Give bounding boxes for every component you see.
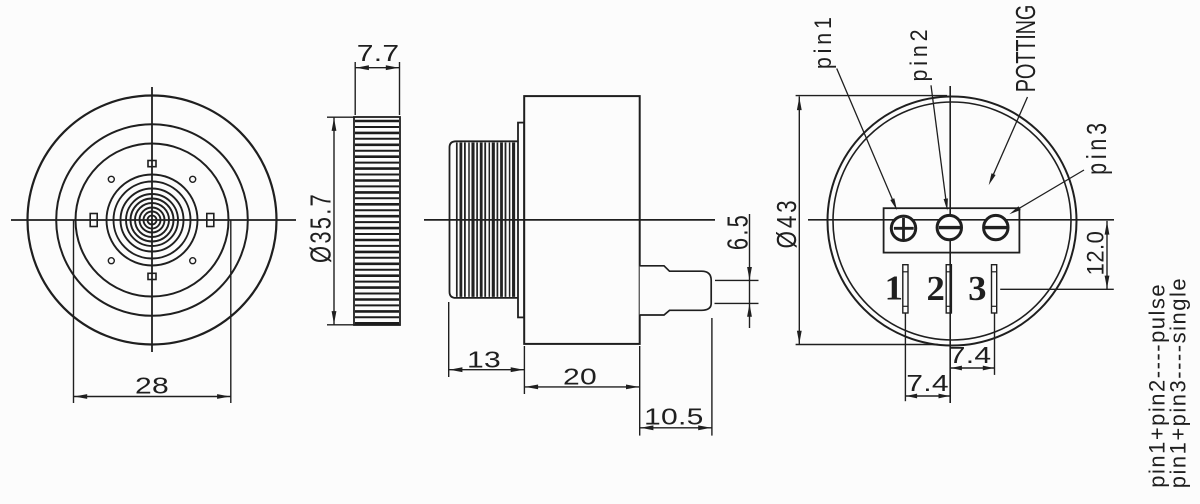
svg-text:Ø43: Ø43 bbox=[772, 198, 803, 249]
dim 6.5 upper extension bbox=[715, 279, 759, 281]
svg-text:Ø35.7: Ø35.7 bbox=[306, 192, 338, 263]
svg-text:20: 20 bbox=[563, 364, 597, 390]
leader pin1 bbox=[837, 69, 895, 206]
back view vertical center line lower bbox=[949, 240, 951, 403]
dim 13 right arrow bbox=[511, 367, 524, 372]
dim 20 right arrow bbox=[626, 385, 639, 390]
bezel knurl stripes bbox=[457, 143, 514, 297]
leader POTTING bbox=[991, 97, 1028, 180]
dim 35.7 top arrow bbox=[332, 118, 337, 131]
back view outer circle bbox=[828, 97, 1077, 346]
cone ring r12.5 bbox=[140, 208, 165, 233]
dim 35.7 top tick bbox=[327, 116, 355, 118]
pin3 screw circle bbox=[984, 215, 1008, 239]
dim 7.4 left dimension line bbox=[905, 395, 950, 397]
dim 7.4 right arrow b bbox=[983, 366, 994, 371]
dim 35.7 dimension line bbox=[333, 117, 335, 325]
solder pin 3 tail bbox=[992, 265, 997, 313]
flange bbox=[518, 123, 524, 318]
dim 13 left arrow bbox=[449, 367, 462, 372]
dim 7.4 left arrow b bbox=[939, 394, 950, 399]
dim 13 dimension line bbox=[449, 369, 525, 371]
svg-text:7.4: 7.4 bbox=[949, 342, 992, 368]
dim 10.5 left arrow bbox=[640, 425, 653, 430]
solder pin 2 tail bbox=[946, 265, 951, 313]
leader POTTING arrow bbox=[989, 173, 996, 185]
knurled ring outline bbox=[354, 117, 400, 325]
diagonal hole 2 bbox=[190, 176, 196, 182]
svg-text:7.7: 7.7 bbox=[357, 40, 400, 66]
dim 7.4 right extension bbox=[994, 313, 996, 375]
dim 12.0 top arrow bbox=[1105, 222, 1110, 235]
dim 43 top arrow bbox=[797, 97, 802, 110]
svg-text:3: 3 bbox=[968, 269, 986, 308]
dim 6.5 lower arrow bbox=[747, 304, 752, 317]
solder pin 2 cap marks bbox=[946, 271, 951, 273]
dim 7.7 left arrow bbox=[356, 65, 369, 70]
front view horizontal center line bbox=[11, 219, 296, 221]
dim 20 left arrow bbox=[525, 385, 538, 390]
dim 28 left arrow bbox=[74, 394, 87, 399]
svg-text:pin1: pin1 bbox=[810, 13, 836, 69]
dim 35.7 bottom arrow bbox=[332, 311, 337, 324]
cone ring r26.0 bbox=[126, 194, 178, 246]
dim 28 left extension line bbox=[73, 220, 75, 403]
dim 7.4 right arrow a bbox=[951, 366, 962, 371]
leader pin3 bbox=[1015, 170, 1085, 211]
svg-text:pin3: pin3 bbox=[1081, 119, 1112, 175]
cone ring r45.5 bbox=[107, 175, 198, 266]
solder pin 1 cap marks bbox=[903, 271, 908, 273]
dim 13 left extension bbox=[448, 302, 450, 377]
dim 10.5 right arrow bbox=[698, 425, 711, 430]
dim 6.5 upper arrow bbox=[747, 267, 752, 280]
front view vertical center line bbox=[151, 87, 153, 352]
svg-text:pin2: pin2 bbox=[906, 26, 932, 82]
pin1 screw circle bbox=[891, 216, 915, 240]
solder pin 1 tail bbox=[903, 265, 908, 313]
pin2 slot bbox=[939, 226, 961, 229]
pin1 cross bbox=[894, 227, 914, 230]
pin3 slot bbox=[985, 226, 1007, 229]
dim 10.5 dimension line bbox=[640, 427, 712, 429]
diagonal hole 3 bbox=[108, 258, 114, 264]
dim 28 dimension line bbox=[74, 396, 231, 398]
svg-text:POTTING: POTTING bbox=[1011, 5, 1042, 92]
dim 43 bottom extension bbox=[796, 344, 938, 346]
dim 12.0 bottom extension bbox=[1000, 288, 1114, 290]
dim 12.0 bottom arrow bbox=[1105, 276, 1110, 289]
cone ring r8.5 bbox=[144, 212, 161, 229]
knurl stripes bbox=[355, 121, 399, 323]
dim 10.5 left extension bbox=[639, 346, 641, 436]
dim 7.4 left arrow a bbox=[906, 394, 917, 399]
back view inner circle bbox=[833, 102, 1071, 340]
diagonal hole 1 bbox=[108, 176, 114, 182]
svg-text:13: 13 bbox=[467, 347, 501, 373]
leader pin3 arrow bbox=[1009, 206, 1020, 214]
svg-text:12.0: 12.0 bbox=[1081, 231, 1108, 276]
dim 6.5 dimension line bbox=[749, 214, 751, 328]
back view vertical center line upper bbox=[949, 86, 951, 216]
dim 43 top extension bbox=[796, 95, 948, 97]
side view center line bbox=[424, 219, 715, 221]
body outline bbox=[524, 96, 640, 344]
dim 7.7 dimension line bbox=[355, 67, 399, 69]
dim 6.5 lower extension bbox=[715, 302, 759, 304]
svg-text:28: 28 bbox=[135, 373, 169, 399]
cone center hole bbox=[148, 216, 157, 225]
dim 43 bottom arrow bbox=[797, 331, 802, 344]
leader pin2 bbox=[931, 85, 947, 205]
dim 7.4 right dimension line bbox=[950, 367, 994, 369]
dim 28 right extension line bbox=[230, 220, 232, 403]
cone ring r31.5 bbox=[121, 189, 184, 252]
svg-text:10.5: 10.5 bbox=[644, 404, 704, 430]
leader pin1 arrow bbox=[890, 198, 897, 210]
diagonal hole 4 bbox=[190, 258, 196, 264]
cone ring r38.5 bbox=[114, 182, 191, 259]
dim 7.4 left extension bbox=[904, 313, 906, 401]
leader pin2 arrow bbox=[944, 198, 948, 210]
svg-text:7.4: 7.4 bbox=[906, 370, 949, 396]
front view middle circle bbox=[56, 124, 248, 316]
svg-text:2: 2 bbox=[927, 269, 945, 308]
dim 7.7 right extension bbox=[399, 62, 401, 115]
svg-text:1: 1 bbox=[885, 268, 903, 307]
cone ring r21.5 bbox=[131, 199, 174, 242]
back view horizontal center line bbox=[808, 219, 1114, 221]
bottom tab bbox=[148, 273, 156, 279]
dim 7.7 left extension bbox=[354, 62, 356, 115]
dim 28 right arrow bbox=[217, 394, 230, 399]
pin2 screw circle bbox=[937, 215, 961, 239]
dim 7.7 right arrow bbox=[386, 65, 399, 70]
pin side outline bbox=[640, 266, 712, 315]
front view outer circle bbox=[28, 96, 277, 345]
dim 20 left extension bbox=[523, 346, 525, 394]
terminal block rectangle bbox=[884, 208, 1020, 252]
top tab bbox=[148, 161, 156, 167]
right tab bbox=[207, 214, 214, 227]
dim 35.7 bottom tick bbox=[327, 324, 355, 326]
dim 12.0 dimension line bbox=[1106, 221, 1108, 289]
bezel outline bbox=[450, 141, 519, 298]
svg-text:pin1+pin3----single: pin1+pin3----single bbox=[1166, 277, 1191, 488]
svg-text:6.5: 6.5 bbox=[723, 213, 754, 250]
cone ring r17.0 bbox=[135, 203, 169, 237]
left tab bbox=[90, 214, 97, 227]
front view inner mounting circle bbox=[76, 144, 229, 297]
dim 10.5 right extension bbox=[711, 318, 713, 436]
dim 43 dimension line bbox=[798, 96, 800, 344]
dim 20 dimension line bbox=[524, 386, 639, 388]
solder pin 3 cap marks bbox=[992, 271, 997, 273]
